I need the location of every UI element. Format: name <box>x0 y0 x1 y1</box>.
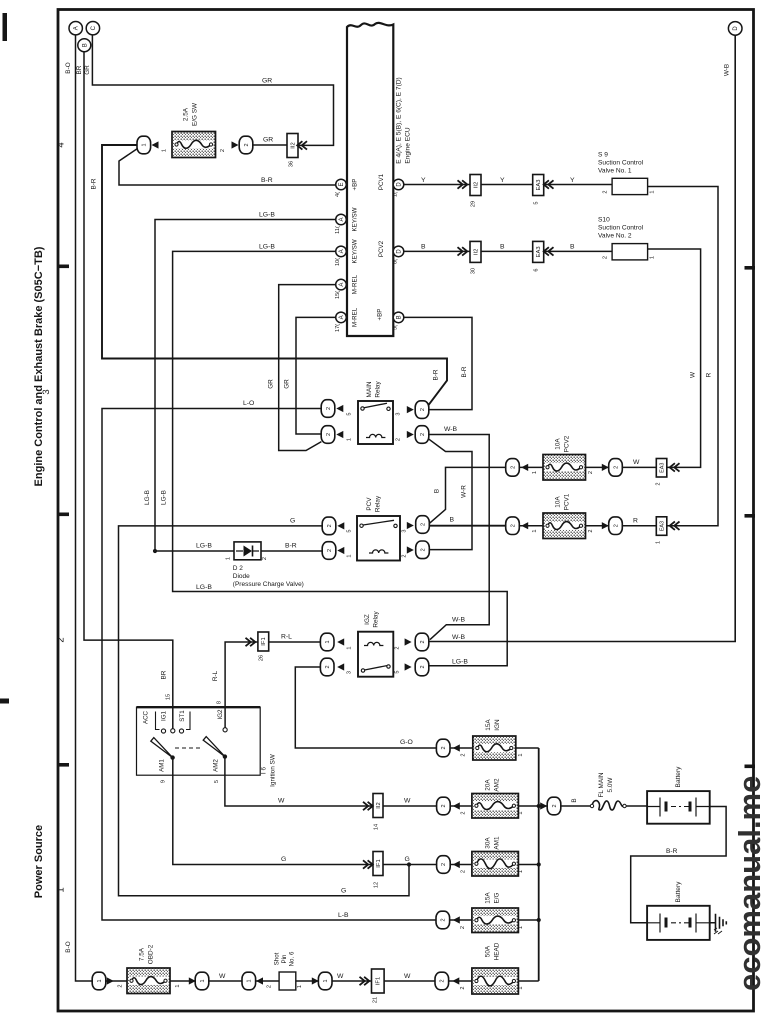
PCV relay contact <box>360 524 363 527</box>
svg-text:W: W <box>690 371 697 378</box>
svg-text:1: 1 <box>175 984 181 987</box>
svg-text:PCV: PCV <box>366 497 373 511</box>
oval PCV1 fuse left <box>506 517 520 535</box>
IGZ relay contact <box>361 669 364 672</box>
svg-text:LG-B: LG-B <box>196 543 212 550</box>
fusible link FL MAIN 5.0W <box>592 801 624 810</box>
svg-text:3: 3 <box>41 389 52 394</box>
wire R-L ignition IG2 to IGZ relay coil <box>225 642 320 730</box>
svg-text:Suction Control: Suction Control <box>598 160 644 167</box>
connector oval 2 E/G SW fuse <box>239 136 253 154</box>
fuse 50A HEAD <box>472 968 519 994</box>
svg-text:2: 2 <box>325 665 331 668</box>
ground symbol <box>716 914 727 932</box>
svg-text:AM1: AM1 <box>159 759 166 772</box>
svg-text:PCV1: PCV1 <box>378 173 385 190</box>
svg-text:2: 2 <box>420 548 426 551</box>
svg-text:B-R: B-R <box>433 369 440 380</box>
svg-text:IGN: IGN <box>494 719 501 731</box>
arrow PCV1 fuse left <box>521 522 528 529</box>
arrow MAIN coil right <box>407 431 414 438</box>
svg-text:W-B: W-B <box>444 426 458 433</box>
svg-text:B-O: B-O <box>65 941 72 952</box>
junction G branch on AM1 row <box>407 862 411 866</box>
svg-text:A: A <box>339 217 345 221</box>
svg-text:D: D <box>397 249 403 254</box>
svg-text:I 6: I 6 <box>261 767 268 775</box>
svg-text:D 2: D 2 <box>233 565 244 572</box>
svg-text:GR: GR <box>84 65 91 75</box>
svg-text:2: 2 <box>461 870 467 873</box>
ECU pin 5(B) +BP <box>393 312 404 323</box>
svg-text:1: 1 <box>650 190 656 193</box>
svg-text:B-R: B-R <box>461 366 468 377</box>
svg-text:B: B <box>450 517 455 524</box>
arrow HEAD fuse <box>452 977 459 984</box>
svg-text:M-REL: M-REL <box>352 307 359 327</box>
svg-text:2: 2 <box>244 143 250 146</box>
connector EA3 pin6 <box>533 241 544 262</box>
chevrons AM1 row <box>363 860 373 868</box>
svg-text:1: 1 <box>325 640 331 643</box>
oval shot pin right <box>318 972 332 990</box>
oval shot pin left <box>242 972 256 990</box>
svg-text:1: 1 <box>518 870 524 873</box>
svg-text:2: 2 <box>603 256 609 259</box>
arrow IGZ contact left <box>337 663 344 670</box>
arrow shot pin left <box>256 977 263 984</box>
fuse 10A PCV1 <box>543 513 586 539</box>
svg-text:2: 2 <box>220 149 226 152</box>
connector EA3 pin5 <box>533 175 544 196</box>
svg-text:2: 2 <box>588 471 594 474</box>
svg-text:S 9: S 9 <box>598 152 608 159</box>
zone tick right 4/3 <box>745 266 756 270</box>
svg-text:Y: Y <box>421 177 426 184</box>
oval AM1 fuse <box>437 856 451 874</box>
svg-text:Shot: Shot <box>274 952 281 965</box>
chevrons out of EA3 S9 <box>544 180 554 188</box>
arm link dashed <box>175 747 201 749</box>
svg-text:L-O: L-O <box>243 400 254 407</box>
chevrons PCV2 row <box>458 247 468 255</box>
arrow PCV contact right <box>407 522 414 529</box>
svg-text:L-B: L-B <box>338 912 349 919</box>
junction bus AM1 row <box>537 862 541 866</box>
svg-text:IF1: IF1 <box>261 637 267 645</box>
svg-text:AM2: AM2 <box>213 759 220 772</box>
svg-text:1: 1 <box>518 753 524 756</box>
arrow PCV coil left <box>337 547 344 554</box>
wire GR from connector C to connector II2 pin 36 <box>92 34 333 146</box>
svg-text:KEY/SW: KEY/SW <box>352 239 359 263</box>
wire B battery loop and B-R link <box>631 807 726 923</box>
svg-text:2: 2 <box>262 557 268 560</box>
connector II2 pin14 <box>373 794 383 818</box>
svg-text:G: G <box>290 518 295 525</box>
svg-text:11(: 11( <box>335 226 341 234</box>
svg-text:Suction Control: Suction Control <box>598 225 644 232</box>
left edge print mark top <box>3 13 8 41</box>
chevrons EA3 PCV1 <box>670 522 680 530</box>
svg-text:PCV1: PCV1 <box>564 493 571 510</box>
arrow IGZ coil left <box>337 638 344 645</box>
svg-text:15A: 15A <box>485 892 492 904</box>
svg-text:2: 2 <box>420 523 426 526</box>
left edge print mark middle <box>0 699 9 704</box>
svg-text:8: 8 <box>217 701 223 704</box>
svg-text:R: R <box>706 372 713 377</box>
svg-text:PCV2: PCV2 <box>564 435 571 452</box>
svg-text:LG-B: LG-B <box>259 212 275 219</box>
connector IF1 pin21 <box>372 969 385 993</box>
svg-text:1: 1 <box>532 529 538 532</box>
svg-text:Battery: Battery <box>675 881 682 903</box>
svg-text:2: 2 <box>461 811 467 814</box>
svg-text:EA3: EA3 <box>659 463 665 473</box>
junction bus E/G row <box>537 918 541 922</box>
chevrons out of EA3 S10 <box>544 247 554 255</box>
arrow E/G fuse <box>453 916 460 923</box>
svg-text:No. 6: No. 6 <box>289 951 296 966</box>
svg-text:E 4(A), E 5(B), E 6(C), E 7(D): E 4(A), E 5(B), E 6(C), E 7(D) <box>396 77 403 163</box>
svg-text:HEAD: HEAD <box>494 942 501 960</box>
wire LG-B net1: ECU KEY/SW 11 to diode junction <box>155 220 336 552</box>
svg-text:Ignition SW: Ignition SW <box>270 753 277 787</box>
wire Y PCV1 ECU to suction valve No.1 <box>404 184 612 186</box>
wire B-R branch to ECU +BP pin 4 <box>119 149 336 186</box>
svg-text:B: B <box>421 244 426 251</box>
svg-text:2: 2 <box>510 524 516 527</box>
oval IGZ coil left <box>320 633 334 651</box>
svg-text:30: 30 <box>471 268 477 274</box>
svg-text:W: W <box>404 973 411 980</box>
ECU pin 11(A) KEY/SW <box>336 214 347 225</box>
svg-text:GR: GR <box>263 137 273 144</box>
svg-text:2: 2 <box>56 637 67 642</box>
svg-text:9: 9 <box>161 780 167 783</box>
svg-text:AM1: AM1 <box>494 836 501 850</box>
svg-text:B: B <box>397 315 403 319</box>
connector IF1 pin12 <box>373 852 383 876</box>
svg-text:2: 2 <box>441 746 447 749</box>
svg-text:(Pressure Charge Valve): (Pressure Charge Valve) <box>233 581 304 588</box>
connector EA3 pin2 PCV2 <box>656 459 667 478</box>
wire B PCV2 ECU to suction valve No.2 <box>404 250 612 252</box>
svg-text:E/G SW: E/G SW <box>192 102 199 126</box>
svg-text:10(: 10( <box>335 258 341 266</box>
connector circle D <box>728 22 742 36</box>
svg-text:M-REL: M-REL <box>352 274 359 294</box>
svg-text:II2: II2 <box>290 142 296 148</box>
svg-text:Valve No. 1: Valve No. 1 <box>598 168 632 175</box>
oval IGZ coil right <box>415 633 429 651</box>
svg-text:A: A <box>339 249 345 253</box>
svg-text:W-B: W-B <box>452 617 466 624</box>
svg-text:D: D <box>733 26 739 31</box>
connector circle C <box>86 22 99 35</box>
suction control valve No.2 box S10 <box>612 244 648 260</box>
oval AM2 fuse <box>437 797 451 815</box>
svg-text:II2: II2 <box>473 182 479 188</box>
svg-text:W: W <box>219 973 226 980</box>
arrow bus to battery oval <box>540 802 547 809</box>
svg-text:2: 2 <box>396 438 402 441</box>
svg-text:2: 2 <box>461 753 467 756</box>
svg-text:2: 2 <box>402 554 408 557</box>
arrow MAIN contact left <box>336 405 343 412</box>
svg-text:D: D <box>397 182 403 187</box>
svg-text:2: 2 <box>420 640 426 643</box>
ignition switch box I6 <box>137 707 261 775</box>
wire BR rail from connector B to ignition switch IG1 <box>84 50 173 731</box>
svg-text:2: 2 <box>460 986 466 989</box>
arrow MAIN coil left <box>336 431 343 438</box>
svg-text:II2: II2 <box>473 249 479 255</box>
PCV relay coil <box>369 550 388 553</box>
svg-text:Relay: Relay <box>375 381 382 398</box>
svg-text:ST1: ST1 <box>179 710 186 722</box>
connector circle A <box>69 22 82 35</box>
svg-text:5: 5 <box>395 670 401 673</box>
svg-text:6: 6 <box>534 268 540 271</box>
svg-text:15: 15 <box>166 694 172 700</box>
svg-text:2: 2 <box>440 979 446 982</box>
svg-text:1(: 1( <box>393 192 399 197</box>
MAIN relay box <box>358 401 393 444</box>
svg-text:1: 1 <box>532 471 538 474</box>
arrow PCV coil right <box>407 546 414 553</box>
svg-text:12: 12 <box>374 882 380 888</box>
zone tick right 2/1 <box>745 765 756 769</box>
arrow OBD left <box>107 977 114 984</box>
wire W-B MAIN relay coil to IGZ relay coil <box>428 435 489 640</box>
connector EA3 pin1 PCV1 <box>656 517 667 536</box>
svg-text:5: 5 <box>347 529 353 532</box>
svg-text:B: B <box>500 244 505 251</box>
svg-text:2: 2 <box>552 804 558 807</box>
wire B-R net: E/G SW fuse to B-R bus and MAIN relay contact <box>102 145 447 405</box>
svg-text:2: 2 <box>603 190 609 193</box>
battery 1 <box>647 791 710 824</box>
fuse 15A IGN <box>473 736 516 760</box>
svg-text:B-R: B-R <box>285 543 297 550</box>
svg-text:5(: 5( <box>393 325 399 330</box>
connector IF1 pin26 <box>258 632 269 651</box>
svg-text:W: W <box>633 459 640 466</box>
svg-text:B-R: B-R <box>261 177 273 184</box>
chevrons AM2 row <box>363 802 373 810</box>
svg-text:E: E <box>339 182 345 186</box>
junction bus AM2 row <box>537 804 541 808</box>
svg-text:+BP: +BP <box>377 309 384 321</box>
svg-text:IG2: IG2 <box>217 709 224 720</box>
svg-text:LG-B: LG-B <box>160 490 167 505</box>
svg-text:Relay: Relay <box>373 611 380 628</box>
oval IGZ contact left <box>320 658 334 676</box>
svg-text:FL MAIN: FL MAIN <box>598 772 605 797</box>
svg-text:A: A <box>339 315 345 319</box>
fuse 7.5A OBD-2 <box>127 968 170 994</box>
svg-text:1: 1 <box>247 979 253 982</box>
shot pin No.6 box <box>279 972 296 990</box>
svg-text:B: B <box>571 798 578 802</box>
svg-text:Power Source: Power Source <box>33 825 45 898</box>
svg-text:OBD-2: OBD-2 <box>148 944 155 964</box>
oval PCV coil left <box>322 542 336 560</box>
svg-text:W: W <box>337 973 344 980</box>
arrow into oval1 <box>152 141 159 148</box>
svg-text:IG1: IG1 <box>161 710 168 721</box>
svg-text:Relay: Relay <box>375 495 382 512</box>
arrow MAIN contact right <box>407 406 414 413</box>
svg-text:BR: BR <box>161 670 168 679</box>
svg-text:II2: II2 <box>376 802 382 808</box>
wire W HEAD row segments <box>106 980 539 982</box>
svg-text:1: 1 <box>142 143 148 146</box>
ECU pin 1(D) PCV1 <box>393 179 404 190</box>
junction diode LG-B <box>153 549 157 553</box>
svg-text:2.5A: 2.5A <box>183 107 190 121</box>
ECU pin 8(D) PCV2 <box>393 246 404 257</box>
svg-text:Diode: Diode <box>233 573 250 580</box>
arrow into oval2 <box>232 141 239 148</box>
IGZ relay box <box>358 632 393 677</box>
arrow PCV contact left <box>337 522 344 529</box>
oval IGN fuse <box>436 739 450 757</box>
svg-text:5: 5 <box>347 412 353 415</box>
wire B PCV relay contact to 10A PCV2 fuse <box>430 467 506 523</box>
wire B-R ECU +BP 5(B) to MAIN relay contact out <box>404 317 472 409</box>
svg-text:R: R <box>633 518 638 525</box>
svg-text:2: 2 <box>613 524 619 527</box>
svg-text:50A: 50A <box>485 945 492 957</box>
svg-text:MAIN: MAIN <box>366 381 373 397</box>
connector II2 pin29 <box>470 175 481 196</box>
svg-text:2: 2 <box>613 466 619 469</box>
svg-text:14: 14 <box>374 824 380 830</box>
wire PCV relay contact to 10A PCV1 fuse <box>429 525 506 527</box>
svg-text:PCV2: PCV2 <box>378 240 385 257</box>
svg-text:3: 3 <box>347 671 353 674</box>
svg-text:EA3: EA3 <box>536 180 542 191</box>
svg-text:7.5A: 7.5A <box>139 947 146 961</box>
svg-text:C: C <box>91 25 97 30</box>
connector II2 pin30 <box>470 241 481 262</box>
svg-text:5.0W: 5.0W <box>607 777 614 793</box>
oval IGZ contact right <box>415 658 429 676</box>
wire B-R diode to PCV relay coil <box>261 550 322 552</box>
svg-text:A: A <box>74 26 80 30</box>
chevrons PCV1 row <box>458 180 468 188</box>
svg-text:5: 5 <box>214 780 220 783</box>
fuse 15A E/G <box>472 908 519 933</box>
svg-text:2: 2 <box>460 926 466 929</box>
oval PCV coil right <box>416 541 430 559</box>
arrow shot pin right <box>312 977 319 984</box>
svg-text:1: 1 <box>518 986 524 989</box>
ECU box E4(A) E5(B) E6(C) E7(D) Engine ECU <box>347 23 393 336</box>
arrow IGZ coil right <box>405 638 412 645</box>
oval MAIN contact right <box>415 401 429 419</box>
svg-text:1: 1 <box>200 979 206 982</box>
ECU pin 15(A) M-REL <box>336 279 347 290</box>
svg-text:17(: 17( <box>335 324 341 332</box>
svg-text:G-O: G-O <box>400 739 413 746</box>
svg-text:29: 29 <box>471 201 477 207</box>
svg-text:4: 4 <box>56 142 67 147</box>
svg-text:2: 2 <box>420 665 426 668</box>
svg-text:2: 2 <box>327 549 333 552</box>
arrow OBD right <box>189 977 196 984</box>
oval OBD out <box>195 972 209 990</box>
ECU pin 17(A) M-REL <box>336 312 347 323</box>
svg-text:2: 2 <box>326 433 332 436</box>
wire GR M-REL15 to MAIN relay coil <box>279 285 336 451</box>
svg-text:2: 2 <box>441 863 447 866</box>
wire G net: PCV relay to 30A AM1 feed branch <box>119 526 410 896</box>
svg-text:Pin: Pin <box>281 954 288 964</box>
svg-text:Y: Y <box>570 177 575 184</box>
svg-text:21: 21 <box>373 997 379 1003</box>
svg-text:1: 1 <box>347 554 353 557</box>
svg-text:1: 1 <box>323 979 329 982</box>
svg-text:W: W <box>278 798 285 805</box>
svg-text:26: 26 <box>259 655 265 661</box>
arrow IGN fuse <box>453 744 460 751</box>
oval PCV contact right <box>416 516 430 534</box>
svg-text:B: B <box>82 43 88 47</box>
oval PCV2 fuse left <box>506 459 520 477</box>
chevrons into II2 <box>297 141 307 149</box>
wire 15A IGN to fuse bus <box>451 747 539 749</box>
ECU pin 4(E) +BP <box>336 179 347 190</box>
svg-text:15A: 15A <box>485 719 492 731</box>
AM2 contact arm <box>203 737 225 757</box>
svg-text:LG-B: LG-B <box>144 490 151 505</box>
svg-text:2: 2 <box>420 408 426 411</box>
svg-text:B-R: B-R <box>91 178 98 189</box>
svg-text:5: 5 <box>534 201 540 204</box>
ECU pin 10(A) KEY/SW <box>336 246 347 257</box>
wire W AM2 row: ignition AM2 to 20A AM2 fuse and battery <box>225 757 647 807</box>
svg-text:2: 2 <box>656 483 662 486</box>
svg-text:Y: Y <box>500 177 505 184</box>
svg-text:2: 2 <box>510 466 516 469</box>
wire LG-B diode feed <box>155 550 234 552</box>
svg-text:AM2: AM2 <box>494 778 501 792</box>
IGZ relay coil <box>364 642 383 645</box>
svg-text:30A: 30A <box>485 837 492 849</box>
svg-text:2: 2 <box>588 529 594 532</box>
oval HEAD fuse <box>435 972 449 990</box>
svg-text:GR: GR <box>284 379 291 389</box>
svg-text:1: 1 <box>656 541 662 544</box>
svg-text:2: 2 <box>441 804 447 807</box>
wire G AM1 row: ignition AM1 to 30A AM1 fuse <box>173 758 539 865</box>
svg-text:1: 1 <box>162 149 168 152</box>
svg-text:LG-B: LG-B <box>259 244 275 251</box>
svg-text:3: 3 <box>396 412 402 415</box>
svg-text:1: 1 <box>97 979 103 982</box>
zone tick left 4/3 <box>58 265 69 269</box>
diode D2 Pressure Charge Valve <box>234 542 261 560</box>
svg-text:W-B: W-B <box>452 634 466 641</box>
svg-text:Valve No. 2: Valve No. 2 <box>598 233 632 240</box>
svg-text:W-B: W-B <box>724 64 731 76</box>
wire LG-B net2: ECU KEY/SW 10 to IGZ relay contact <box>173 251 508 665</box>
svg-text:KEY/SW: KEY/SW <box>352 207 359 231</box>
